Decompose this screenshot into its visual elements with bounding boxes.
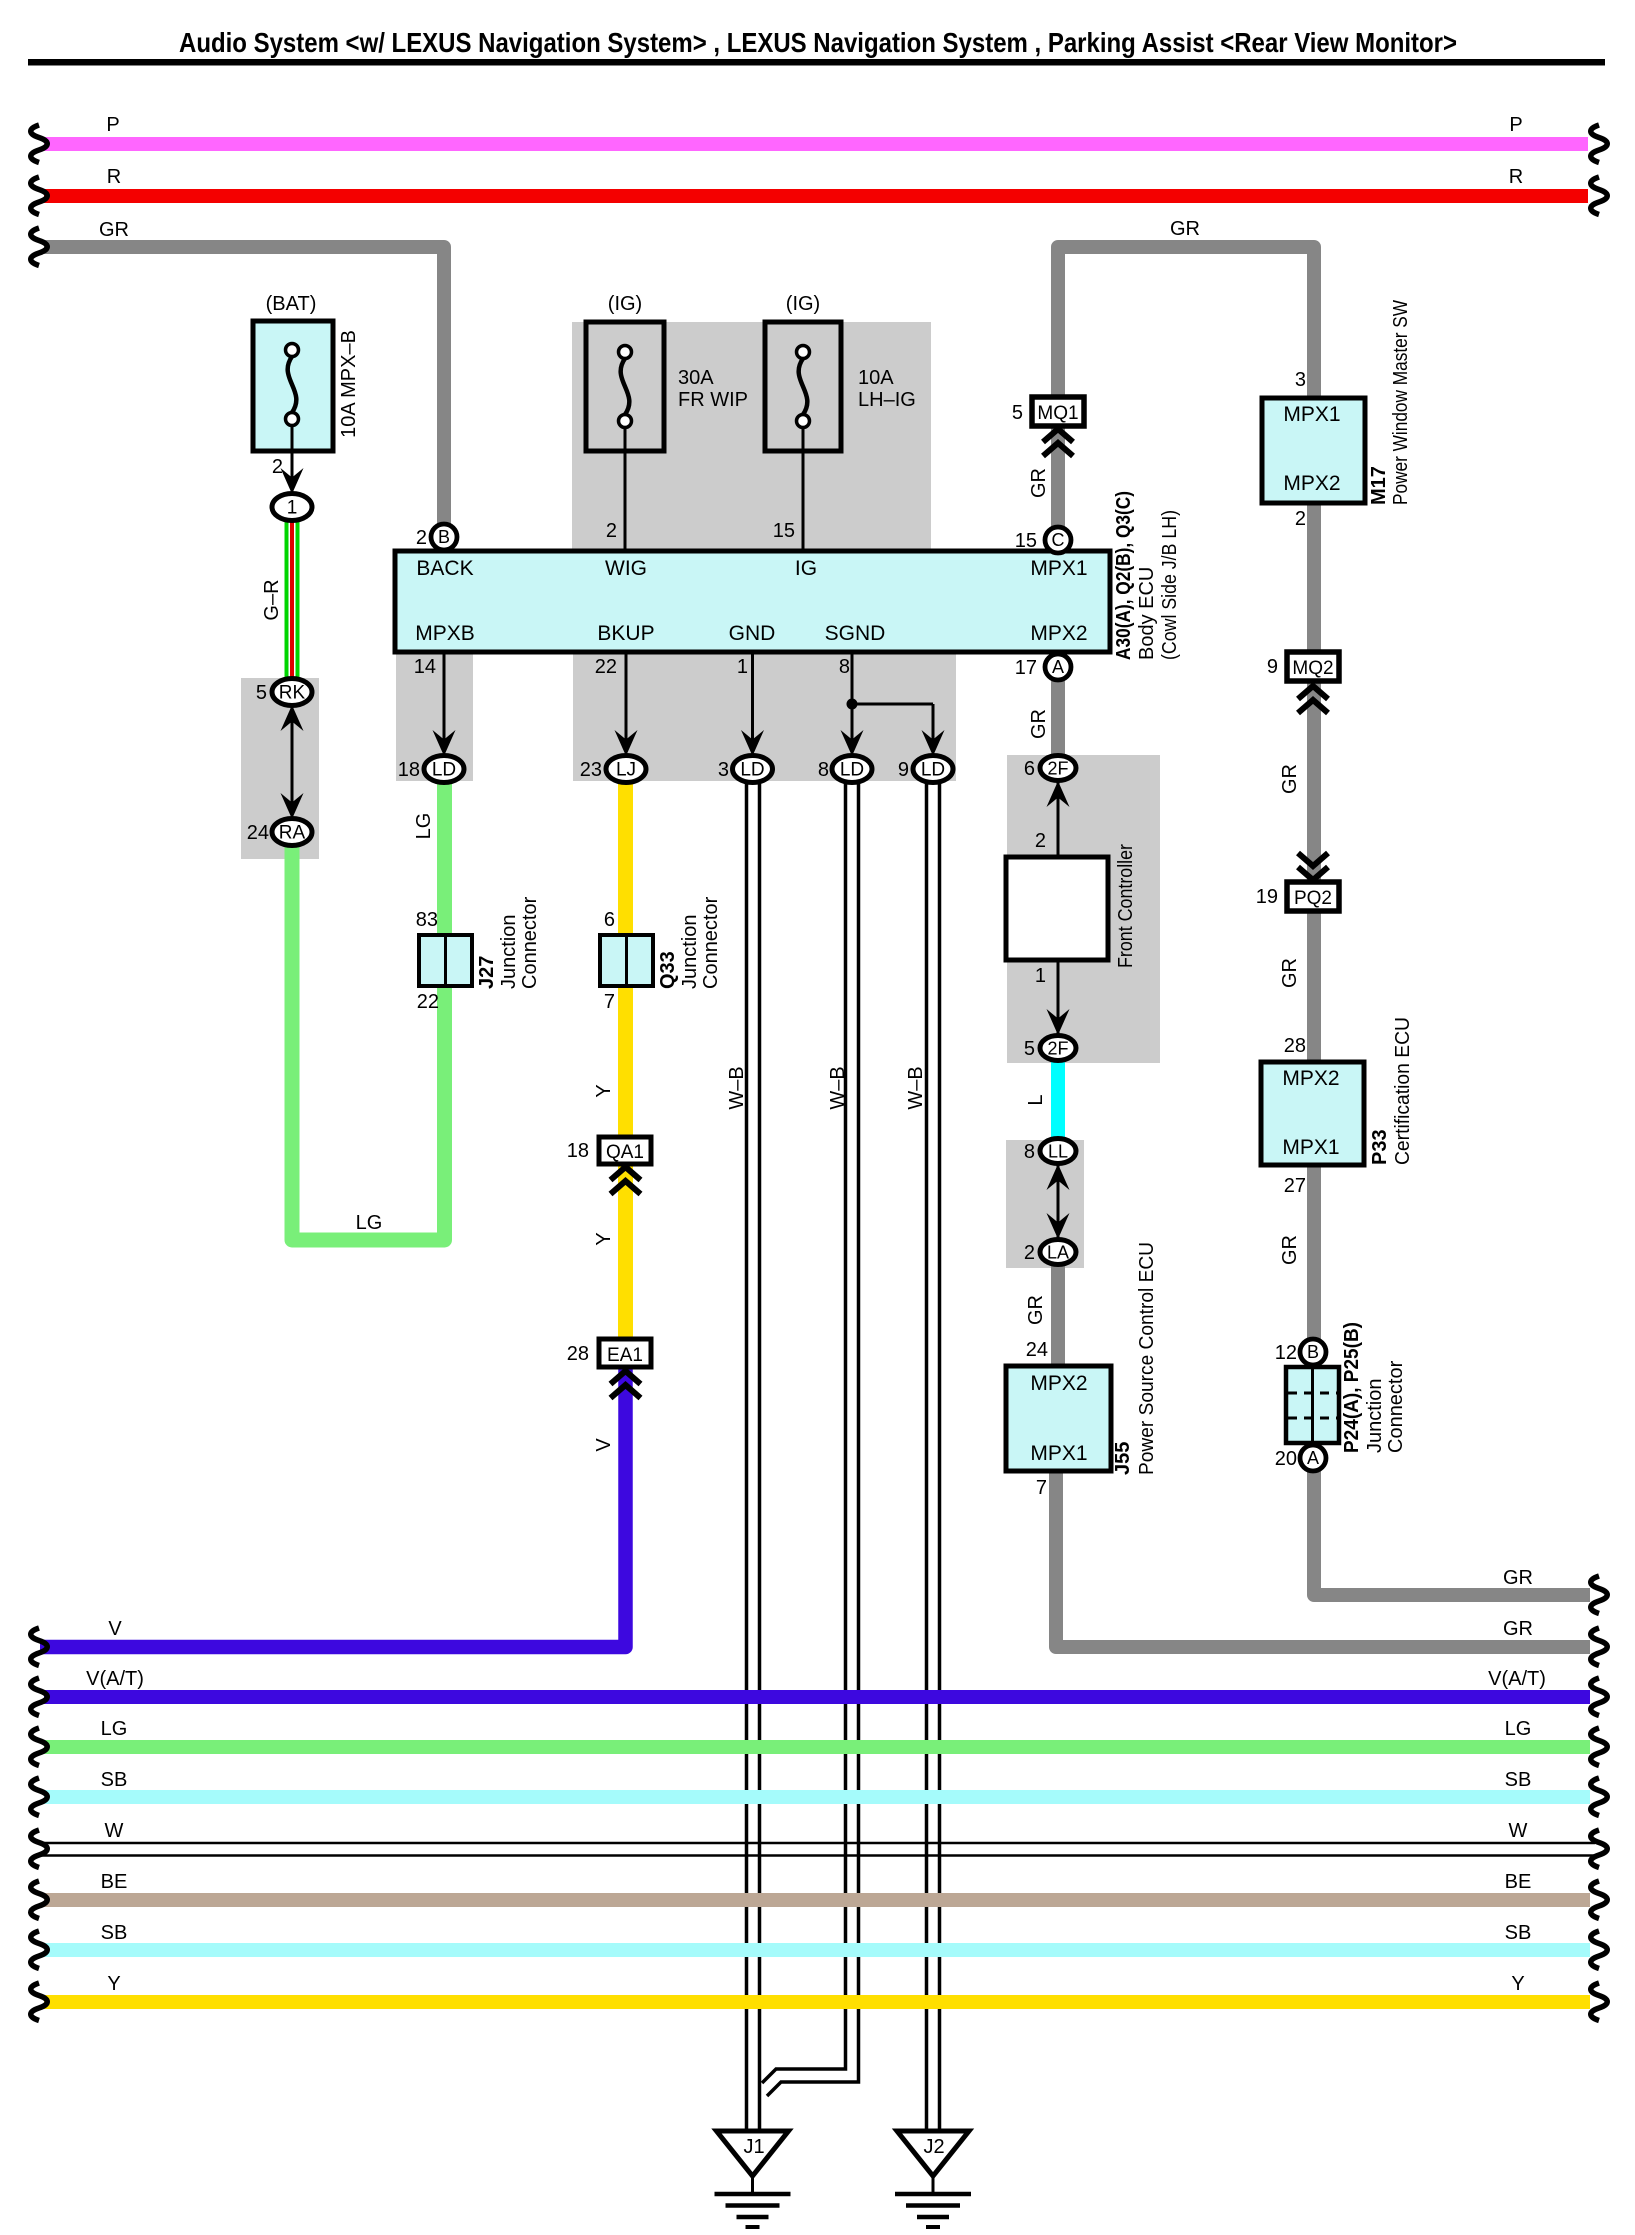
svg-text:GR: GR: [1279, 764, 1301, 794]
svg-text:J1: J1: [743, 2136, 764, 2158]
svg-text:22: 22: [595, 656, 617, 678]
svg-text:Certification ECU: Certification ECU: [1392, 1017, 1414, 1165]
svg-text:5: 5: [1012, 402, 1023, 424]
svg-text:28: 28: [1284, 1035, 1306, 1057]
svg-text:3: 3: [1295, 369, 1306, 391]
svg-text:MQ2: MQ2: [1292, 658, 1333, 679]
svg-text:QA1: QA1: [606, 1142, 644, 1163]
svg-text:GR: GR: [1170, 218, 1200, 240]
svg-text:W–B: W–B: [905, 1066, 927, 1109]
svg-text:30A: 30A: [678, 367, 714, 389]
svg-text:GR: GR: [1025, 1295, 1047, 1325]
svg-text:Front Controller: Front Controller: [1115, 844, 1137, 968]
svg-text:18: 18: [567, 1140, 589, 1162]
svg-text:2: 2: [1035, 830, 1046, 852]
svg-text:12: 12: [1275, 1342, 1297, 1364]
svg-text:BACK: BACK: [416, 557, 473, 580]
svg-text:(IG): (IG): [608, 293, 642, 315]
svg-text:14: 14: [414, 656, 436, 678]
svg-text:W–B: W–B: [726, 1066, 748, 1109]
svg-text:1: 1: [737, 656, 748, 678]
svg-text:3: 3: [718, 759, 729, 781]
svg-text:6: 6: [1024, 758, 1035, 780]
svg-text:Audio System <w/ LEXUS Navigat: Audio System <w/ LEXUS Navigation System…: [179, 27, 1457, 58]
svg-text:15: 15: [1015, 530, 1037, 552]
svg-text:Body ECU: Body ECU: [1136, 567, 1158, 660]
svg-text:LG: LG: [413, 813, 435, 840]
svg-text:MPX2: MPX2: [1030, 622, 1087, 645]
svg-text:MPX2: MPX2: [1030, 1372, 1087, 1395]
svg-text:P24(A), P25(B): P24(A), P25(B): [1341, 1322, 1363, 1453]
svg-text:17: 17: [1015, 657, 1037, 679]
svg-text:B: B: [1307, 1342, 1319, 1362]
svg-text:MPX1: MPX1: [1030, 1442, 1087, 1465]
svg-text:C: C: [1052, 530, 1065, 550]
svg-text:GR: GR: [1279, 958, 1301, 988]
svg-text:BKUP: BKUP: [597, 622, 654, 645]
svg-text:BE: BE: [1505, 1871, 1532, 1893]
svg-text:LH–IG: LH–IG: [858, 389, 916, 411]
svg-text:SB: SB: [1505, 1922, 1532, 1944]
svg-text:6: 6: [604, 909, 615, 931]
svg-text:A30(A), Q2(B), Q3(C): A30(A), Q2(B), Q3(C): [1113, 491, 1135, 660]
svg-text:P: P: [1509, 114, 1522, 136]
svg-text:LG: LG: [356, 1212, 383, 1234]
svg-text:24: 24: [1026, 1339, 1048, 1361]
svg-text:MPX1: MPX1: [1283, 403, 1340, 426]
svg-text:L: L: [1025, 1094, 1047, 1105]
svg-text:SB: SB: [1505, 1769, 1532, 1791]
svg-text:MPX1: MPX1: [1030, 557, 1087, 580]
svg-text:A: A: [1307, 1448, 1319, 1468]
svg-text:RA: RA: [279, 823, 306, 844]
svg-text:10A MPX–B: 10A MPX–B: [338, 330, 360, 438]
svg-text:LG: LG: [1505, 1718, 1532, 1740]
svg-text:WIG: WIG: [605, 557, 647, 580]
svg-text:5: 5: [256, 682, 267, 704]
svg-text:LD: LD: [840, 760, 864, 781]
svg-text:W–B: W–B: [827, 1066, 849, 1109]
svg-text:MPX1: MPX1: [1282, 1136, 1339, 1159]
svg-text:15: 15: [773, 520, 795, 542]
svg-text:MPX2: MPX2: [1282, 1067, 1339, 1090]
svg-text:GR: GR: [1503, 1567, 1533, 1589]
svg-text:8: 8: [1024, 1141, 1035, 1163]
svg-text:Connector: Connector: [519, 896, 541, 989]
svg-text:1: 1: [1035, 965, 1046, 987]
svg-text:PQ2: PQ2: [1294, 888, 1332, 909]
svg-text:MQ1: MQ1: [1037, 403, 1078, 424]
svg-text:BE: BE: [101, 1871, 128, 1893]
svg-text:20: 20: [1275, 1448, 1297, 1470]
svg-text:9: 9: [1267, 656, 1278, 678]
svg-text:J2: J2: [923, 2136, 944, 2158]
svg-text:22: 22: [417, 991, 439, 1013]
svg-text:GR: GR: [1503, 1618, 1533, 1640]
svg-text:(Cowl Side J/B LH): (Cowl Side J/B LH): [1159, 510, 1181, 660]
svg-text:LD: LD: [921, 760, 945, 781]
svg-text:LJ: LJ: [616, 760, 636, 781]
svg-text:24: 24: [247, 822, 269, 844]
svg-text:EA1: EA1: [607, 1345, 643, 1366]
svg-text:2F: 2F: [1047, 759, 1068, 779]
svg-text:Connector: Connector: [1385, 1360, 1407, 1453]
svg-text:2: 2: [606, 520, 617, 542]
svg-text:2: 2: [1295, 508, 1306, 530]
svg-text:RK: RK: [279, 683, 306, 704]
svg-text:2: 2: [1024, 1242, 1035, 1264]
svg-text:LG: LG: [101, 1718, 128, 1740]
svg-text:Connector: Connector: [700, 896, 722, 989]
svg-text:Y: Y: [593, 1084, 615, 1097]
svg-text:28: 28: [567, 1343, 589, 1365]
svg-text:9: 9: [898, 759, 909, 781]
svg-text:A: A: [1052, 657, 1064, 677]
svg-text:19: 19: [1256, 886, 1278, 908]
svg-text:Power Source Control ECU: Power Source Control ECU: [1136, 1242, 1158, 1475]
svg-text:LL: LL: [1048, 1142, 1068, 1162]
svg-text:8: 8: [818, 759, 829, 781]
svg-text:Power Window Master SW: Power Window Master SW: [1390, 300, 1412, 505]
svg-text:Y: Y: [1511, 1973, 1524, 1995]
svg-text:8: 8: [839, 656, 850, 678]
svg-text:MPX2: MPX2: [1283, 472, 1340, 495]
svg-text:W: W: [1509, 1820, 1528, 1842]
svg-text:P: P: [106, 114, 119, 136]
svg-text:(BAT): (BAT): [266, 293, 317, 315]
svg-text:LD: LD: [740, 760, 764, 781]
svg-text:IG: IG: [795, 557, 817, 580]
svg-text:LD: LD: [432, 760, 456, 781]
svg-text:7: 7: [1036, 1477, 1047, 1499]
svg-text:R: R: [107, 166, 121, 188]
svg-text:B: B: [438, 527, 450, 547]
svg-text:1: 1: [287, 498, 298, 519]
svg-text:SB: SB: [101, 1922, 128, 1944]
svg-text:G–R: G–R: [261, 579, 283, 620]
svg-text:83: 83: [416, 909, 438, 931]
svg-text:Junction: Junction: [1364, 1379, 1386, 1454]
svg-text:18: 18: [398, 759, 420, 781]
svg-text:27: 27: [1284, 1175, 1306, 1197]
svg-text:GR: GR: [99, 219, 129, 241]
svg-text:SB: SB: [101, 1769, 128, 1791]
svg-text:Q33: Q33: [657, 951, 679, 989]
svg-text:23: 23: [580, 759, 602, 781]
svg-text:(IG): (IG): [786, 293, 820, 315]
svg-text:2: 2: [272, 456, 283, 478]
svg-text:GR: GR: [1028, 709, 1050, 739]
svg-text:5: 5: [1024, 1038, 1035, 1060]
svg-text:GND: GND: [729, 622, 776, 645]
svg-text:R: R: [1509, 166, 1523, 188]
svg-text:J27: J27: [476, 956, 498, 989]
svg-text:GR: GR: [1279, 1235, 1301, 1265]
svg-text:M17: M17: [1368, 466, 1390, 505]
svg-text:7: 7: [604, 991, 615, 1013]
svg-text:Y: Y: [593, 1232, 615, 1245]
svg-text:V: V: [593, 1438, 615, 1452]
svg-text:Junction: Junction: [498, 915, 520, 990]
svg-text:GR: GR: [1028, 468, 1050, 498]
svg-text:Junction: Junction: [679, 915, 701, 990]
svg-text:FR WIP: FR WIP: [678, 389, 748, 411]
svg-text:2F: 2F: [1047, 1039, 1068, 1059]
svg-text:P33: P33: [1369, 1129, 1391, 1165]
svg-text:V: V: [108, 1618, 122, 1640]
svg-text:SGND: SGND: [825, 622, 886, 645]
svg-text:10A: 10A: [858, 367, 894, 389]
svg-text:J55: J55: [1112, 1442, 1134, 1475]
svg-text:LA: LA: [1047, 1243, 1069, 1263]
svg-text:2: 2: [416, 527, 427, 549]
svg-text:V(A/T): V(A/T): [86, 1668, 144, 1690]
svg-text:MPXB: MPXB: [415, 622, 475, 645]
svg-text:Y: Y: [107, 1973, 120, 1995]
svg-text:W: W: [105, 1820, 124, 1842]
svg-text:V(A/T): V(A/T): [1488, 1668, 1546, 1690]
